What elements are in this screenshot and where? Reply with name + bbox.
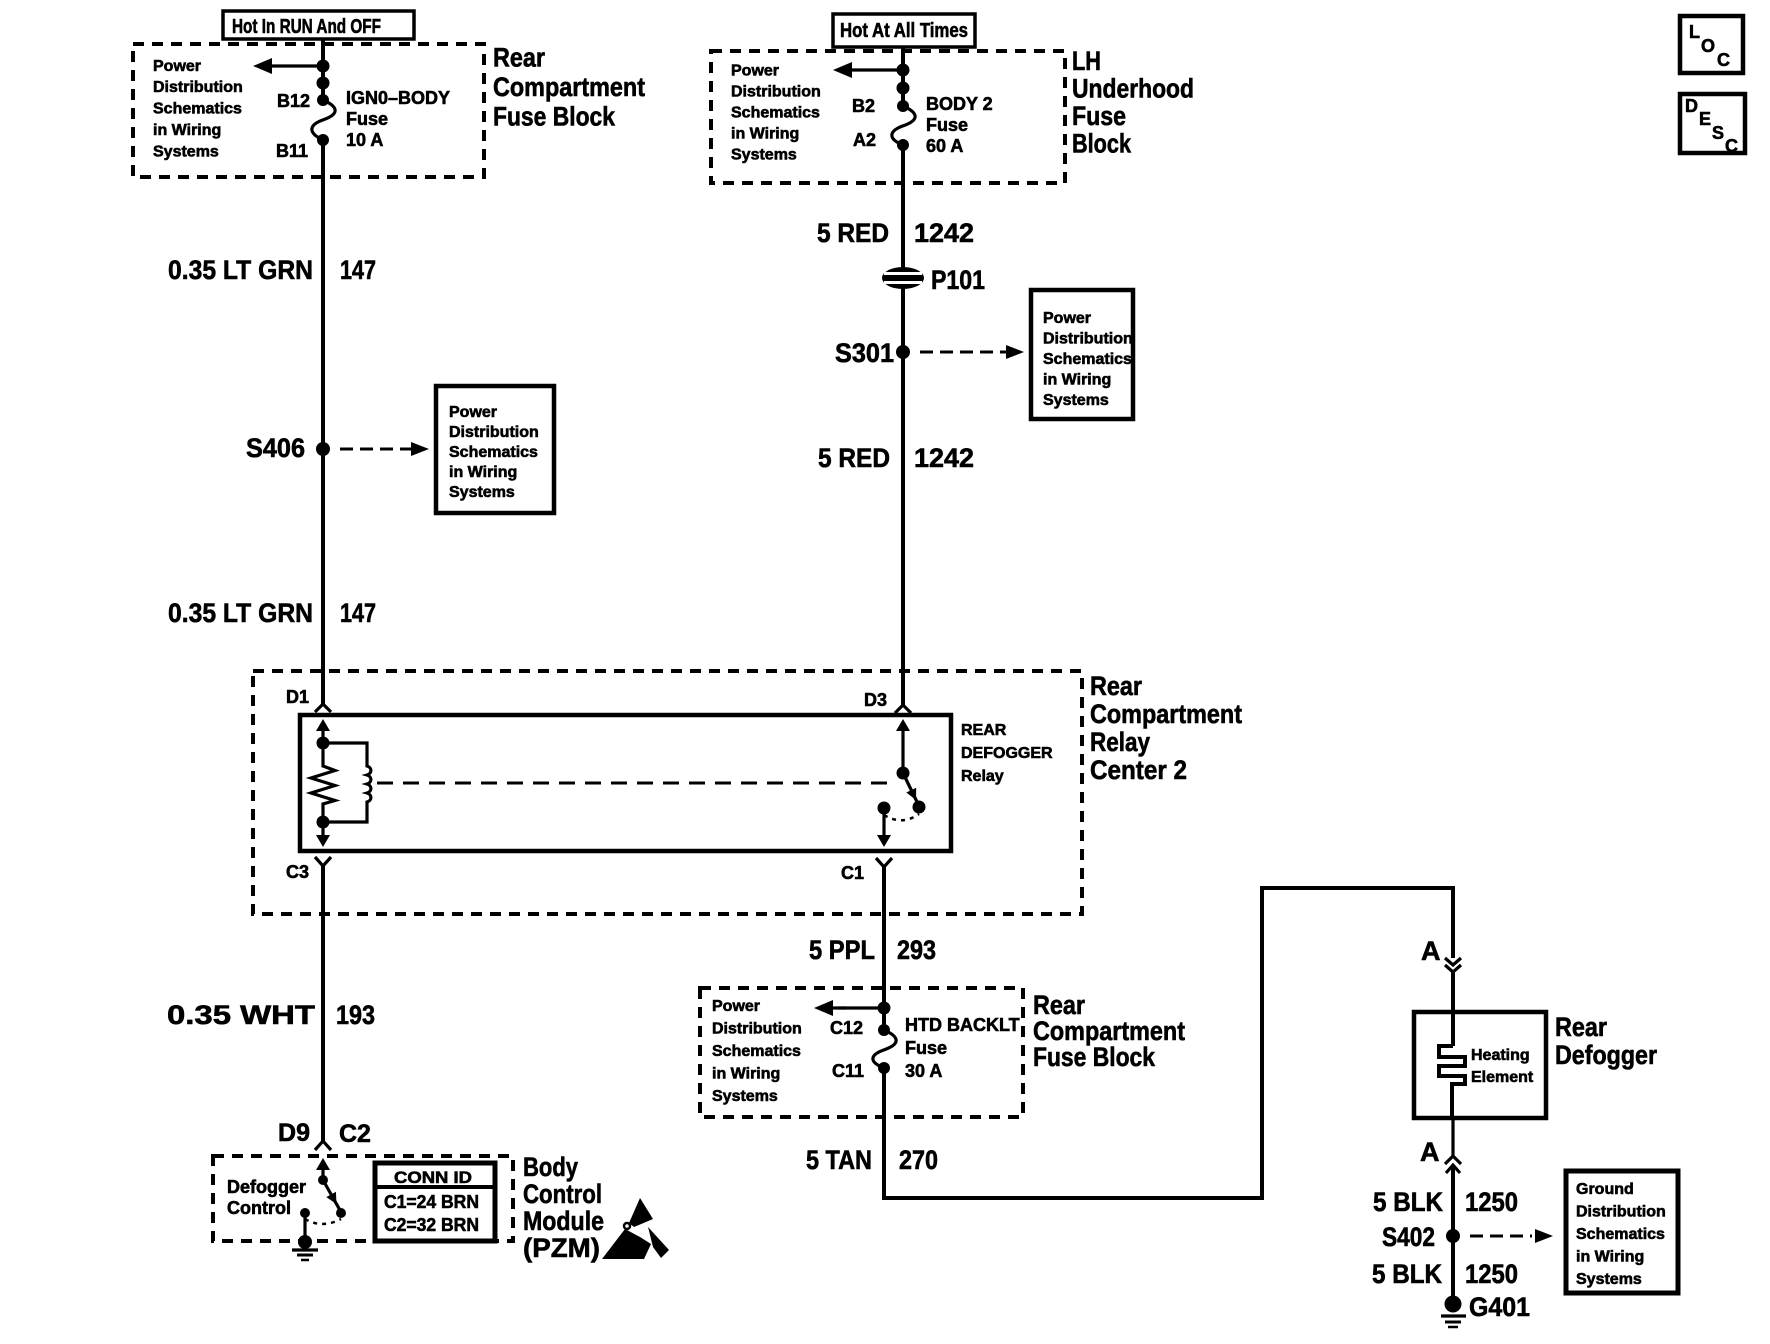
svg-text:Distribution: Distribution bbox=[449, 424, 539, 441]
svg-text:Fuse Block: Fuse Block bbox=[493, 102, 616, 132]
svg-text:Defogger: Defogger bbox=[227, 1177, 306, 1197]
svg-text:Power: Power bbox=[731, 63, 779, 80]
svg-text:B12: B12 bbox=[277, 91, 310, 111]
reference box: Ground Distribution Schematics in Wiring Systems bbox=[1566, 1171, 1678, 1293]
svg-text:10 A: 10 A bbox=[346, 130, 383, 150]
label: LH Underhood Fuse Block bbox=[1072, 46, 1194, 159]
svg-text:S: S bbox=[1712, 123, 1724, 143]
svg-text:A: A bbox=[1420, 1137, 1440, 1167]
fuse F1 IGN0-BODY 10A bbox=[312, 94, 335, 146]
svg-text:5 PPL: 5 PPL bbox=[809, 935, 875, 965]
svg-text:Distribution: Distribution bbox=[153, 79, 243, 96]
wire: branch arrow to power distribution bbox=[253, 58, 323, 74]
svg-text:D1: D1 bbox=[286, 687, 309, 707]
svg-text:in Wiring: in Wiring bbox=[449, 464, 517, 481]
CONN ID table bbox=[375, 1163, 495, 1241]
svg-text:A: A bbox=[1421, 936, 1441, 966]
label: Rear Compartment Relay Center 2 bbox=[1090, 671, 1242, 785]
svg-text:Schematics: Schematics bbox=[712, 1043, 801, 1060]
svg-text:C: C bbox=[1717, 50, 1730, 70]
svg-text:C1=24 BRN: C1=24 BRN bbox=[384, 1192, 479, 1212]
Rear Compartment Fuse Block (dashed enclosure) bbox=[133, 44, 484, 177]
junction bbox=[317, 737, 330, 750]
inline connector A (bottom) bbox=[1420, 1118, 1461, 1173]
connector P101 (grommet) bbox=[882, 265, 985, 295]
svg-text:Relay: Relay bbox=[961, 768, 1004, 785]
svg-text:1242: 1242 bbox=[914, 443, 974, 473]
pin arrow into BCM bbox=[316, 1158, 330, 1180]
svg-text:BODY 2: BODY 2 bbox=[926, 94, 993, 114]
svg-text:Systems: Systems bbox=[449, 484, 515, 501]
svg-text:Systems: Systems bbox=[712, 1088, 778, 1105]
value label: BODY 2 Fuse 60 A bbox=[926, 94, 993, 156]
svg-text:Systems: Systems bbox=[731, 147, 797, 164]
wire: branch arrow to power distribution bbox=[833, 62, 903, 78]
junction bbox=[897, 64, 910, 77]
svg-text:Schematics: Schematics bbox=[731, 105, 820, 122]
svg-text:Power: Power bbox=[1043, 310, 1091, 327]
BCM defogger control switch blade bbox=[323, 1180, 346, 1218]
svg-text:60 A: 60 A bbox=[926, 136, 963, 156]
coil (relay winding) bbox=[323, 743, 371, 822]
svg-text:Distribution: Distribution bbox=[712, 1021, 802, 1038]
note: Defogger Control bbox=[227, 1177, 306, 1218]
svg-text:Systems: Systems bbox=[1043, 392, 1109, 409]
svg-text:C2=32 BRN: C2=32 BRN bbox=[384, 1215, 479, 1235]
value label: Heating Element bbox=[1471, 1047, 1534, 1086]
relay U1: REAR DEFOGGER Relay box bbox=[300, 715, 951, 851]
wire label: 5 PPL 293 bbox=[809, 935, 936, 965]
junction bbox=[878, 1002, 891, 1015]
svg-text:5 RED: 5 RED bbox=[818, 443, 890, 473]
svg-text:Ground: Ground bbox=[1576, 1181, 1634, 1198]
svg-text:Heating: Heating bbox=[1471, 1047, 1530, 1064]
svg-text:Center 2: Center 2 bbox=[1090, 755, 1187, 785]
heating element R2 bbox=[1439, 1012, 1465, 1118]
svg-text:E: E bbox=[1699, 109, 1711, 129]
svg-text:Systems: Systems bbox=[153, 144, 219, 161]
svg-text:L: L bbox=[1689, 22, 1700, 42]
svg-text:193: 193 bbox=[336, 1000, 375, 1030]
pin arrow into relay (D3) bbox=[896, 719, 910, 773]
svg-text:30 A: 30 A bbox=[905, 1061, 942, 1081]
svg-text:G401: G401 bbox=[1469, 1292, 1530, 1322]
svg-text:5 BLK: 5 BLK bbox=[1373, 1187, 1443, 1217]
value label: HTD BACKLT Fuse 30 A bbox=[905, 1015, 1020, 1081]
Rear Defogger heating element box bbox=[1414, 1012, 1546, 1118]
label: Body Control Module (PZM) bbox=[523, 1152, 604, 1263]
wire: defogger ground wire bbox=[1451, 1165, 1455, 1298]
wire: feed into fuse block bbox=[321, 39, 325, 100]
connector chevron C3 bbox=[315, 857, 331, 866]
BCM switch pivot bbox=[318, 1175, 328, 1185]
svg-text:Schematics: Schematics bbox=[153, 101, 242, 118]
reference box: Power Distribution Schematics in Wiring Systems bbox=[1031, 290, 1133, 419]
Rear Compartment Relay Center 2 (dashed enclosure) bbox=[253, 671, 1082, 914]
svg-text:C11: C11 bbox=[832, 1061, 864, 1081]
wire label: 5 RED 1242 (second) bbox=[818, 443, 974, 473]
svg-text:Hot In RUN And OFF: Hot In RUN And OFF bbox=[232, 16, 381, 38]
svg-text:C1: C1 bbox=[841, 863, 864, 883]
svg-text:B2: B2 bbox=[852, 96, 875, 116]
svg-text:C: C bbox=[1725, 136, 1738, 156]
junction bbox=[897, 82, 910, 95]
wire: coil to C3 with arrow bbox=[316, 822, 330, 847]
wire: C3 to BCM bbox=[321, 866, 325, 1141]
svg-text:Block: Block bbox=[1072, 129, 1132, 159]
svg-text:S406: S406 bbox=[246, 433, 305, 463]
switch travel arc bbox=[305, 1219, 341, 1224]
svg-text:HTD BACKLT: HTD BACKLT bbox=[905, 1015, 1020, 1035]
svg-text:1242: 1242 bbox=[914, 218, 974, 248]
dashed reference arrow from S402 bbox=[1470, 1229, 1553, 1243]
reference box: Power Distribution Schematics in Wiring Systems bbox=[436, 386, 554, 513]
pin arrow into relay (D1) bbox=[316, 719, 330, 743]
svg-text:Hot At All Times: Hot At All Times bbox=[840, 20, 968, 42]
svg-text:DEFOGGER: DEFOGGER bbox=[961, 745, 1053, 762]
svg-text:Distribution: Distribution bbox=[731, 84, 821, 101]
LOC reference box bbox=[1680, 16, 1743, 73]
fuse F2 BODY 2 60A bbox=[892, 100, 915, 151]
note: Power Distribution Schematics in Wiring Systems bbox=[731, 63, 821, 164]
value label: IGN0-BODY Fuse 10 A bbox=[346, 88, 450, 150]
label: Rear Compartment Fuse Block bbox=[1033, 990, 1185, 1072]
svg-text:C3: C3 bbox=[286, 862, 309, 882]
svg-text:Fuse Block: Fuse Block bbox=[1033, 1042, 1156, 1072]
BCM switch contact bbox=[300, 1208, 310, 1218]
connector chevron D1 bbox=[315, 704, 331, 712]
junction bbox=[317, 77, 330, 90]
svg-text:Schematics: Schematics bbox=[1043, 351, 1132, 368]
svg-text:1250: 1250 bbox=[1465, 1187, 1518, 1217]
label: Rear Defogger bbox=[1555, 1012, 1657, 1070]
svg-text:LH: LH bbox=[1072, 46, 1101, 76]
svg-text:S402: S402 bbox=[1382, 1222, 1435, 1252]
relay switch blade bbox=[903, 773, 926, 814]
svg-text:Fuse: Fuse bbox=[346, 109, 388, 129]
svg-text:5 BLK: 5 BLK bbox=[1372, 1259, 1442, 1289]
svg-text:in Wiring: in Wiring bbox=[153, 122, 221, 139]
svg-text:Systems: Systems bbox=[1576, 1271, 1642, 1288]
svg-text:5 RED: 5 RED bbox=[817, 218, 889, 248]
svg-text:D3: D3 bbox=[864, 690, 887, 710]
svg-text:D: D bbox=[1685, 96, 1698, 116]
wire: C1 down to fuse block bbox=[882, 867, 886, 1030]
svg-text:Body: Body bbox=[523, 1152, 578, 1182]
wire: feed into underhood fuse block bbox=[901, 47, 905, 106]
svg-text:in Wiring: in Wiring bbox=[712, 1066, 780, 1083]
svg-text:S301: S301 bbox=[835, 338, 894, 368]
splice S406 bbox=[246, 433, 330, 463]
net label: Hot In RUN And OFF bbox=[223, 11, 414, 39]
svg-text:(PZM): (PZM) bbox=[523, 1233, 600, 1263]
svg-text:0.35 LT GRN: 0.35 LT GRN bbox=[168, 255, 313, 285]
relay switch contact bbox=[878, 802, 891, 815]
svg-text:C12: C12 bbox=[830, 1018, 863, 1038]
splice S402 bbox=[1382, 1222, 1460, 1252]
ground (BCM internal) bbox=[292, 1213, 318, 1260]
svg-text:CONN ID: CONN ID bbox=[394, 1168, 472, 1187]
svg-text:0.35 LT GRN: 0.35 LT GRN bbox=[168, 598, 313, 628]
wire label: 5 TAN 270 bbox=[806, 1145, 938, 1175]
wire label: 5 BLK 1250 bbox=[1373, 1187, 1518, 1217]
svg-text:REAR: REAR bbox=[961, 722, 1007, 739]
svg-text:5 TAN: 5 TAN bbox=[806, 1145, 872, 1175]
svg-text:Distribution: Distribution bbox=[1043, 331, 1133, 348]
wire label: 5 BLK 1250 (second) bbox=[1372, 1259, 1518, 1289]
svg-text:147: 147 bbox=[340, 598, 376, 628]
wire: fuse to rear defogger routing bbox=[884, 888, 1453, 1198]
svg-text:Defogger: Defogger bbox=[1555, 1040, 1657, 1070]
label: REAR DEFOGGER Relay bbox=[961, 722, 1053, 785]
svg-text:Rear: Rear bbox=[1090, 671, 1142, 701]
svg-text:Power: Power bbox=[153, 58, 201, 75]
svg-text:Schematics: Schematics bbox=[1576, 1226, 1665, 1243]
svg-text:A2: A2 bbox=[853, 130, 876, 150]
svg-text:270: 270 bbox=[899, 1145, 938, 1175]
dashed control linkage coil to switch bbox=[377, 782, 894, 785]
dashed reference arrow from S301 bbox=[920, 345, 1024, 359]
label: Rear Compartment Fuse Block bbox=[493, 43, 645, 132]
splice S301 bbox=[835, 338, 910, 368]
svg-text:O: O bbox=[1701, 36, 1715, 56]
wire label: 0.35 LT GRN 147 (second) bbox=[168, 598, 376, 628]
LH Underhood Fuse Block (dashed enclosure) bbox=[711, 51, 1065, 183]
connector chevron C1 bbox=[876, 858, 892, 867]
switch travel arc bbox=[884, 814, 919, 820]
svg-text:Fuse: Fuse bbox=[1072, 101, 1126, 131]
wire: branch arrow to power distribution bbox=[814, 1000, 884, 1016]
svg-text:Control: Control bbox=[227, 1198, 291, 1218]
svg-text:147: 147 bbox=[340, 255, 376, 285]
svg-text:Rear: Rear bbox=[1555, 1012, 1607, 1042]
svg-text:in Wiring: in Wiring bbox=[1576, 1249, 1644, 1266]
svg-text:C2: C2 bbox=[339, 1120, 371, 1148]
svg-text:Underhood: Underhood bbox=[1072, 74, 1194, 104]
inline connector A (top) bbox=[1421, 936, 1461, 1012]
svg-text:Fuse: Fuse bbox=[926, 115, 968, 135]
svg-text:IGN0–BODY: IGN0–BODY bbox=[346, 88, 450, 108]
fuse F3 HTD BACKLT 30A bbox=[873, 1024, 896, 1074]
wire label: 0.35 WHT 193 bbox=[167, 1000, 375, 1030]
svg-text:Compartment: Compartment bbox=[493, 72, 645, 102]
Rear Compartment Fuse Block 2 (dashed enclosure) bbox=[700, 988, 1023, 1117]
dashed reference arrow from S406 bbox=[340, 442, 429, 456]
connector chevron D3 bbox=[895, 705, 911, 713]
Body Control Module (dashed enclosure) bbox=[213, 1156, 513, 1241]
svg-text:Schematics: Schematics bbox=[449, 444, 538, 461]
svg-text:in Wiring: in Wiring bbox=[731, 126, 799, 143]
svg-text:1250: 1250 bbox=[1465, 1259, 1518, 1289]
junction bbox=[317, 60, 330, 73]
svg-text:Fuse: Fuse bbox=[905, 1038, 947, 1058]
svg-text:Module: Module bbox=[523, 1206, 604, 1236]
resistor (relay coil suppression) bbox=[311, 743, 335, 822]
connector chevron D9/C2 bbox=[315, 1141, 331, 1150]
net label: Hot At All Times bbox=[833, 14, 975, 47]
svg-text:Distribution: Distribution bbox=[1576, 1204, 1666, 1221]
svg-text:in Wiring: in Wiring bbox=[1043, 372, 1111, 389]
svg-text:0.35 WHT: 0.35 WHT bbox=[167, 1000, 316, 1030]
svg-text:Control: Control bbox=[523, 1179, 602, 1209]
svg-text:Element: Element bbox=[1471, 1069, 1534, 1086]
svg-text:Power: Power bbox=[449, 404, 497, 421]
wire label: 5 RED 1242 bbox=[817, 218, 974, 248]
svg-text:293: 293 bbox=[897, 935, 936, 965]
relay switch pivot bbox=[897, 767, 910, 780]
note: Power Distribution Schematics in Wiring Systems bbox=[712, 998, 802, 1105]
svg-text:B11: B11 bbox=[276, 141, 308, 161]
svg-text:D9: D9 bbox=[278, 1119, 310, 1147]
note: Power Distribution Schematics in Wiring Systems bbox=[153, 58, 243, 161]
wire: contact to C1 with arrow bbox=[877, 808, 891, 847]
ESD sensitivity symbol bbox=[602, 1198, 669, 1259]
svg-text:P101: P101 bbox=[931, 265, 985, 295]
svg-text:Relay: Relay bbox=[1090, 727, 1150, 757]
junction bbox=[317, 816, 330, 829]
svg-text:Rear: Rear bbox=[493, 43, 545, 73]
wire label: 0.35 LT GRN 147 bbox=[168, 255, 376, 285]
svg-text:Power: Power bbox=[712, 998, 760, 1015]
DESC reference box bbox=[1680, 94, 1745, 156]
ground G401 bbox=[1441, 1292, 1530, 1327]
svg-text:Compartment: Compartment bbox=[1090, 699, 1242, 729]
